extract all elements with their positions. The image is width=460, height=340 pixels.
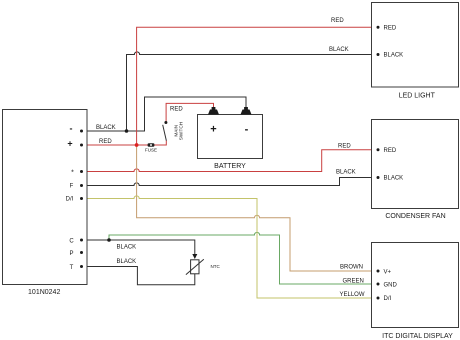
svg-text:FUSE: FUSE: [145, 148, 157, 153]
svg-text:LED LIGHT: LED LIGHT: [399, 93, 436, 100]
svg-text:BLACK: BLACK: [329, 47, 349, 53]
svg-text:-: -: [70, 123, 73, 133]
svg-text:RED: RED: [338, 143, 351, 149]
svg-text:ITC DIGITAL DISPLAY: ITC DIGITAL DISPLAY: [382, 333, 453, 340]
svg-text:BROWN: BROWN: [340, 264, 363, 270]
svg-text:RED: RED: [384, 148, 397, 154]
svg-text:GND: GND: [384, 282, 398, 288]
svg-text:D/I: D/I: [384, 296, 392, 302]
svg-text:BLACK: BLACK: [96, 125, 116, 131]
svg-text:CONDENSER FAN: CONDENSER FAN: [385, 213, 445, 220]
svg-text:RED: RED: [331, 18, 344, 24]
svg-text:RED: RED: [170, 107, 183, 113]
svg-text:-: -: [245, 123, 249, 135]
svg-text:GREEN: GREEN: [343, 279, 364, 285]
svg-text:BATTERY: BATTERY: [214, 163, 246, 170]
svg-text:NTC: NTC: [211, 264, 221, 269]
svg-text:YELLOW: YELLOW: [340, 292, 365, 298]
svg-text:BLACK: BLACK: [117, 245, 137, 251]
svg-text:+: +: [67, 139, 72, 149]
svg-text:BLACK: BLACK: [117, 259, 137, 265]
svg-text:F: F: [70, 184, 74, 190]
svg-text:C: C: [69, 239, 74, 245]
svg-text:BLACK: BLACK: [336, 170, 356, 176]
svg-text:D/I: D/I: [66, 197, 74, 203]
svg-text:+: +: [210, 123, 216, 135]
svg-text:V+: V+: [384, 269, 392, 275]
svg-text:101N0242: 101N0242: [28, 289, 60, 296]
svg-text:*: *: [71, 170, 74, 177]
svg-text:T: T: [70, 265, 74, 271]
svg-text:BLACK: BLACK: [384, 53, 404, 59]
svg-text:RED: RED: [384, 26, 397, 32]
svg-text:P: P: [69, 251, 73, 257]
svg-text:BLACK: BLACK: [384, 176, 404, 182]
svg-text:RED: RED: [99, 139, 112, 145]
svg-text:SWITCH: SWITCH: [178, 122, 183, 141]
